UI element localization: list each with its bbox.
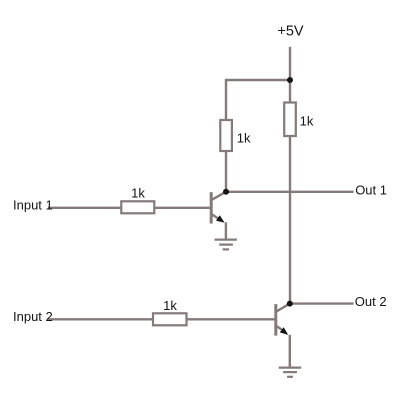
Q2 collector diagonal — [277, 304, 290, 312]
wire: right branch R2 down to Q2 collector — [289, 136, 291, 304]
wire: right branch +5V to R2 — [289, 80, 291, 103]
wire: R3 to Q1 base — [154, 207, 210, 209]
Q2 emitter diagonal — [277, 326, 286, 332]
Q2 emitter arrow — [280, 327, 288, 335]
resistor R3 1k (input 1) — [121, 201, 154, 213]
svg-text:1k: 1k — [237, 131, 251, 146]
svg-text:1k: 1k — [300, 114, 314, 129]
svg-text:+5V: +5V — [277, 24, 304, 40]
junction node: +5V rail split — [287, 77, 293, 83]
Q2 base bar — [274, 304, 277, 336]
wire: +5V stub — [289, 47, 291, 80]
svg-text:1k: 1k — [163, 298, 177, 313]
svg-text:Input 2: Input 2 — [13, 309, 53, 324]
resistor R1 1k (left pull-up) — [220, 120, 232, 151]
junction node: Q2 collector / Out 2 — [287, 301, 293, 307]
resistor R2 1k (right pull-up) — [284, 103, 296, 137]
wire: Out 2 line — [290, 302, 354, 304]
Q1 emitter arrow — [216, 215, 225, 222]
wire: Out 1 line — [226, 191, 354, 193]
junction node: Q1 collector / Out 1 — [223, 189, 229, 195]
wire: Input 2 to R4 — [48, 318, 154, 320]
Q1 base bar — [210, 192, 213, 223]
wire: top rail to left branch — [226, 80, 290, 121]
transistor Q2 — [276, 304, 290, 367]
ground (below Q2) — [279, 368, 302, 377]
wire: R4 to Q2 base — [186, 318, 274, 320]
ground (below Q1) — [215, 240, 237, 250]
Q2 emitter lead — [289, 335, 291, 367]
Q1 collector diagonal — [212, 192, 225, 200]
transistor Q1 — [211, 192, 226, 239]
Q1 emitter diagonal — [212, 214, 221, 220]
wire: Input 1 to R3 — [48, 207, 122, 209]
svg-text:Out 1: Out 1 — [355, 182, 387, 197]
Q1 emitter lead — [225, 222, 227, 238]
svg-text:Input 1: Input 1 — [13, 198, 53, 213]
svg-text:Out 2: Out 2 — [355, 294, 387, 309]
svg-text:1k: 1k — [131, 186, 145, 201]
wire: left branch below R1 to Q1 collector — [225, 151, 227, 193]
resistor R4 1k (input 2) — [153, 313, 187, 325]
